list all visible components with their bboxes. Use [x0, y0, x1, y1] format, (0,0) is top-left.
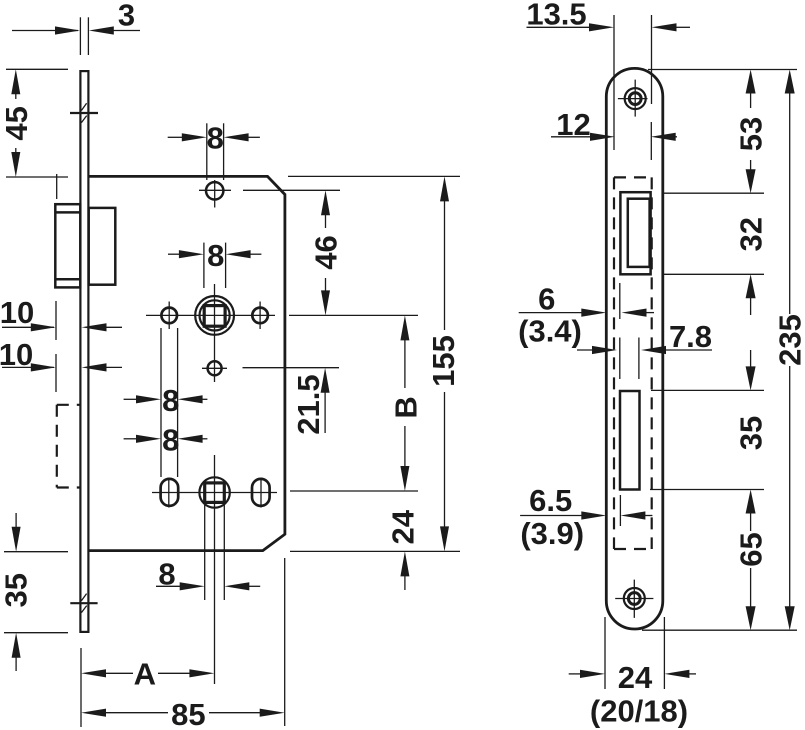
- hub column centerline: [214, 284, 216, 382]
- svg-text:10: 10: [0, 295, 34, 330]
- dim 35 right: [734, 350, 769, 450]
- ext line small hole right: [243, 367, 340, 369]
- small hole below hub: [202, 361, 227, 375]
- hub row centerline: [146, 314, 275, 316]
- dim A: [81, 657, 214, 692]
- svg-text:85: 85: [171, 697, 205, 730]
- dim 53: [734, 70, 769, 194]
- svg-text:46: 46: [309, 235, 344, 269]
- hub side hole left: [161, 302, 177, 330]
- break mark top: [70, 103, 98, 122]
- faceplate front view: [606, 68, 663, 629]
- dim 235: [773, 70, 805, 631]
- ext line top hole right: [243, 189, 340, 191]
- screw hole top: [618, 80, 648, 117]
- svg-text:21.5: 21.5: [291, 374, 326, 434]
- svg-text:7.8: 7.8: [669, 319, 712, 354]
- latch bolt rear: [89, 208, 116, 285]
- lower slot right: [252, 478, 270, 508]
- ext verticals bottom 24: [605, 617, 664, 689]
- svg-text:65: 65: [734, 532, 769, 566]
- dim 6 (3.4): [518, 282, 654, 349]
- dim 32: [734, 217, 769, 315]
- svg-text:24: 24: [618, 660, 653, 695]
- dim 24 left view: [385, 509, 420, 590]
- svg-text:45: 45: [0, 106, 34, 140]
- dim 8 hub square: [168, 238, 261, 288]
- ext line latch bottom: [663, 273, 764, 275]
- dim 21.5: [291, 368, 330, 435]
- dim 35: [0, 513, 68, 671]
- svg-text:235: 235: [773, 314, 805, 366]
- dim 24 bottom: [569, 660, 696, 695]
- dim 8 slot col upper: [124, 328, 208, 477]
- follower hub U: [195, 296, 234, 335]
- dim 10 lower: [0, 337, 122, 392]
- tick at latch face: [56, 174, 58, 199]
- dim 13.5: [526, 0, 690, 32]
- lower row centerline: [152, 492, 277, 494]
- svg-text:6: 6: [538, 282, 555, 317]
- latch cutout: [620, 192, 650, 274]
- dim 8 bottom square: [156, 505, 260, 600]
- lower column centerline: [214, 455, 216, 684]
- svg-text:(20/18): (20/18): [590, 694, 688, 729]
- lower slot left: [161, 478, 179, 508]
- ext line lower row right: [290, 490, 418, 492]
- dim 45: [0, 69, 68, 177]
- svg-text:8: 8: [162, 423, 179, 458]
- deadbolt extended dashed: [57, 405, 80, 488]
- svg-text:(3.9): (3.9): [520, 516, 584, 551]
- spindle ext lines: [620, 283, 639, 526]
- ext line body bottom right: [290, 550, 460, 552]
- strike outline dashed: [614, 177, 652, 549]
- ext line bolt top: [651, 389, 764, 391]
- ext line body right bottom: [284, 558, 286, 726]
- dim 7.8: [577, 319, 712, 354]
- deadbolt cutout: [620, 391, 640, 490]
- ext line body top right: [288, 175, 460, 177]
- dim 46: [309, 190, 344, 315]
- svg-text:(3.4): (3.4): [518, 314, 582, 349]
- ext line faceplate left bottom: [80, 648, 82, 727]
- ext verticals 13.5 and 12: [614, 15, 652, 160]
- ext line plate top: [648, 69, 797, 71]
- svg-text:32: 32: [734, 217, 769, 251]
- svg-text:6.5: 6.5: [529, 483, 572, 518]
- ext line plate bottom: [642, 629, 797, 631]
- dim 8 top hole: [168, 120, 260, 180]
- svg-text:3: 3: [118, 0, 135, 33]
- dim 6.5 (3.9): [520, 483, 652, 551]
- dim 155: [426, 176, 461, 551]
- dim 65: [734, 490, 769, 631]
- svg-text:35: 35: [734, 416, 769, 450]
- dim 8 slot col lower: [124, 423, 208, 458]
- latch bolt front: [55, 204, 80, 287]
- svg-text:8: 8: [207, 238, 224, 273]
- ext line hub row right: [289, 314, 418, 316]
- svg-text:8: 8: [207, 120, 224, 155]
- svg-text:24: 24: [385, 509, 420, 544]
- svg-text:53: 53: [734, 117, 769, 151]
- screw hole bottom: [615, 580, 653, 618]
- svg-text:B: B: [388, 396, 423, 418]
- svg-text:8: 8: [162, 383, 179, 418]
- break mark bottom: [70, 594, 97, 613]
- lower follower hub: [199, 477, 229, 507]
- svg-text:155: 155: [426, 335, 461, 387]
- ext line latch top: [663, 192, 764, 194]
- svg-text:A: A: [134, 657, 156, 692]
- faceplate side view: [80, 71, 88, 632]
- hub side hole right: [252, 302, 268, 330]
- dim 85: [81, 697, 285, 730]
- lock case body outline: [90, 176, 285, 550]
- dim 10 upper: [0, 295, 122, 340]
- dim 12: [551, 107, 677, 142]
- svg-text:35: 35: [0, 573, 34, 607]
- ext line bolt bottom: [650, 489, 764, 491]
- top fixing hole: [199, 180, 231, 208]
- dim B: [388, 315, 423, 491]
- dim 3: [12, 0, 140, 55]
